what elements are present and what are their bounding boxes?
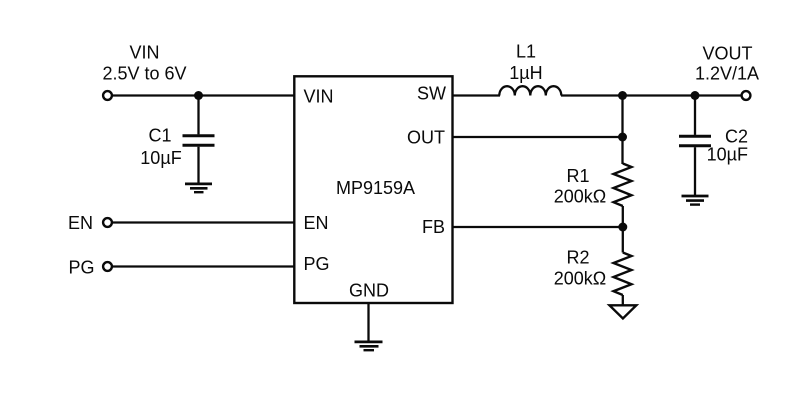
svg-text:10µF: 10µF xyxy=(707,145,748,165)
node PG input terminal xyxy=(68,258,111,278)
svg-text:PG: PG xyxy=(68,258,94,278)
svg-text:1µH: 1µH xyxy=(509,63,542,83)
ground (C1) xyxy=(185,184,212,192)
node C2 junction xyxy=(691,91,700,100)
svg-text:1.2V/1A: 1.2V/1A xyxy=(695,64,759,84)
wire EN terminal to IC EN pin xyxy=(112,221,295,223)
inductor L1 1uH xyxy=(499,42,561,96)
resistor R1 200k xyxy=(554,164,632,228)
resistor R2 200k xyxy=(554,227,632,305)
node FB junction xyxy=(618,223,627,232)
svg-text:VIN: VIN xyxy=(129,43,159,63)
svg-text:VOUT: VOUT xyxy=(702,44,752,64)
wire IC GND pin to ground xyxy=(367,303,369,341)
wire VIN terminal to IC VIN pin xyxy=(112,94,295,96)
wire PG terminal to IC PG pin xyxy=(112,265,295,267)
svg-text:VIN: VIN xyxy=(304,87,334,107)
node EN input terminal xyxy=(68,213,112,233)
capacitor C1 xyxy=(140,96,214,184)
svg-text:L1: L1 xyxy=(516,42,536,62)
ground (signal, R2 triangle) xyxy=(610,305,637,318)
wire OUT pin to R1 top xyxy=(453,136,623,138)
capacitor C2 xyxy=(679,96,748,196)
svg-text:EN: EN xyxy=(304,213,329,233)
svg-text:GND: GND xyxy=(349,281,389,301)
svg-text:MP9159A: MP9159A xyxy=(336,178,415,198)
svg-text:FB: FB xyxy=(422,217,445,237)
node OUT junction xyxy=(618,133,627,142)
node VOUT output terminal xyxy=(695,44,759,100)
svg-text:R2: R2 xyxy=(566,248,589,268)
ground (IC GND) xyxy=(355,342,383,350)
svg-text:C2: C2 xyxy=(725,127,748,147)
svg-text:200kΩ: 200kΩ xyxy=(554,269,607,289)
node VIN input terminal xyxy=(102,43,186,100)
node C1 junction xyxy=(194,91,203,100)
node L1 output junction xyxy=(618,91,627,100)
wire FB pin to divider xyxy=(453,226,624,228)
svg-text:OUT: OUT xyxy=(407,128,445,148)
IC U1 MP9159A xyxy=(294,76,452,303)
svg-text:SW: SW xyxy=(417,84,446,104)
svg-text:2.5V to 6V: 2.5V to 6V xyxy=(102,63,186,83)
wire SW pin to inductor xyxy=(453,94,501,96)
svg-text:10µF: 10µF xyxy=(140,148,181,168)
svg-text:R1: R1 xyxy=(566,166,589,186)
svg-text:EN: EN xyxy=(68,213,93,233)
svg-text:C1: C1 xyxy=(148,126,171,146)
svg-text:PG: PG xyxy=(304,254,330,274)
wire L1 junction down to R1 xyxy=(621,96,623,165)
svg-text:200kΩ: 200kΩ xyxy=(554,187,607,207)
ground (C2) xyxy=(682,196,709,205)
wire inductor to VOUT terminal xyxy=(561,94,742,96)
